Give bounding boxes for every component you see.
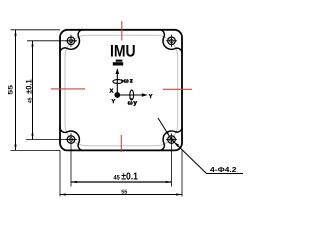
dimension 55 bottom: line and arrows [60, 193, 182, 195]
dimension text 55 left (rotated) [8, 84, 15, 94]
axis symbol: Y axis (right arrow) [117, 93, 148, 97]
extension line bottom-left hole down [70, 146, 72, 187]
extension line top edge to left [11, 29, 61, 31]
leader arrowhead upper [166, 131, 170, 136]
svg-text:4-Φ4.2: 4-Φ4.2 [210, 165, 237, 174]
label IMU [110, 42, 136, 61]
svg-text:X: X [110, 88, 114, 94]
svg-text:Y: Y [149, 94, 153, 100]
leader line to bottom-right hole [158, 118, 243, 174]
extension line bottom edge to left [11, 149, 61, 151]
dimension 45+-0.1 left: line and arrows [31, 41, 33, 140]
svg-text:ωy: ωy [128, 101, 138, 107]
dimension text 55 bottom [121, 189, 127, 195]
mounting hole bottom-right [166, 133, 177, 145]
label wz beside Z ring [124, 78, 133, 84]
extension line bottom-right hole down [171, 146, 173, 187]
dimension 45+-0.1 bottom: line and arrows [71, 181, 172, 183]
dimension text 45 +-0.1 left (rotated) [25, 79, 34, 103]
rotation ring around Y axis [129, 90, 134, 101]
corner boss scallop top-right [159, 30, 182, 53]
svg-text:55: 55 [8, 84, 15, 94]
dimension text 45 +-0.1 bottom [114, 171, 139, 182]
centerline tick right (red) [163, 88, 192, 90]
origin label below [112, 99, 116, 105]
axis symbol: Z axis (up arrow) [116, 68, 120, 95]
svg-text:45±0.1: 45±0.1 [25, 79, 34, 103]
extension line right bottom corner down [181, 150, 183, 196]
label at Y arrow tip [149, 94, 153, 100]
centerline tick top (red) [121, 21, 123, 41]
corner boss scallop bottom-right [159, 127, 182, 150]
svg-text:55: 55 [121, 189, 127, 195]
extension line left bottom corner down [59, 150, 61, 196]
svg-text:45±0.1: 45±0.1 [114, 171, 139, 182]
corner boss scallop bottom-left [60, 127, 83, 150]
rotation ring around Z axis [113, 79, 124, 84]
label wy below Y ring [128, 101, 138, 107]
extension line bottom-left hole [26, 139, 77, 141]
centerline tick bottom (red) [120, 135, 122, 152]
svg-text:ωz: ωz [124, 78, 133, 84]
enclosure outline [60, 30, 182, 151]
origin label X [110, 88, 114, 94]
inner wall (hidden line, gray rounded square) [65, 35, 178, 146]
mounting hole bottom-left [66, 133, 77, 145]
corner boss scallop top-left [60, 30, 83, 53]
svg-text:IMU: IMU [110, 42, 136, 61]
dimension 55 left: line and arrows [14, 30, 16, 151]
axis origin (X out of page) [114, 92, 120, 98]
extension line top-left hole [27, 40, 77, 42]
leader arrowhead lower [174, 142, 179, 147]
axis label Z (top blob) [113, 60, 123, 66]
centerline tick left (red) [51, 88, 85, 90]
svg-text:Y: Y [112, 99, 116, 105]
mounting hole top-left [66, 35, 77, 47]
leader text 4-dia4.2 [210, 165, 237, 174]
mounting hole top-right [166, 35, 177, 47]
